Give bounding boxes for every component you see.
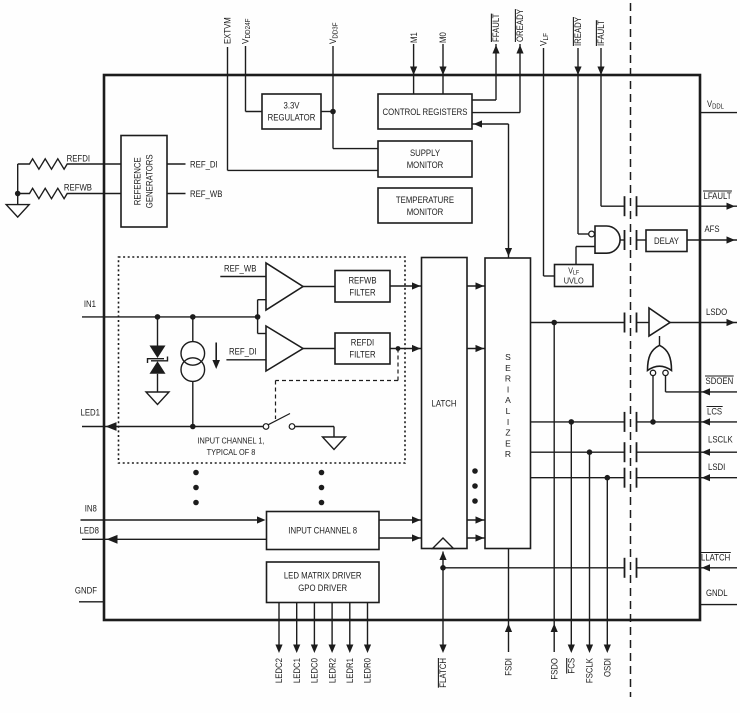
svg-text:LEDR0: LEDR0 <box>363 658 373 683</box>
ground symbol (TVS) <box>146 392 169 405</box>
pin LFAULT label <box>703 191 732 201</box>
svg-text:FSDO: FSDO <box>549 658 559 680</box>
svg-text:EXTVM: EXTVM <box>223 17 233 44</box>
pin OREADY (active-low output) <box>472 9 525 113</box>
svg-text:TYPICAL OF 8: TYPICAL OF 8 <box>207 447 256 457</box>
svg-text:REGULATOR: REGULATOR <box>268 113 316 123</box>
ellipsis dots channel repetition right <box>472 468 478 504</box>
node IN1 junctions <box>155 314 261 320</box>
svg-text:IREADY: IREADY <box>573 17 583 46</box>
isolation capacitor on LSCLK path <box>625 442 637 462</box>
current source (wetting current) <box>181 317 205 427</box>
resistor on REFWB input <box>18 183 121 199</box>
wire switch to ground <box>333 427 335 438</box>
svg-text:M1: M1 <box>409 32 419 43</box>
svg-text:LCS: LCS <box>707 407 722 417</box>
net REF_DI output stub <box>167 160 218 170</box>
pin VDDL <box>700 99 737 113</box>
svg-text:3.3V: 3.3V <box>284 101 300 111</box>
pin AFS <box>687 224 737 244</box>
pin LED8 <box>80 526 267 544</box>
ellipsis dots channel repetition middle <box>319 470 325 506</box>
net REF_WB output stub <box>167 189 222 199</box>
current direction arrow <box>212 343 220 370</box>
svg-text:FSDI: FSDI <box>504 658 514 676</box>
svg-text:LEDC0: LEDC0 <box>310 658 320 683</box>
wire LATCH to SERIALIZER y348 <box>467 345 485 352</box>
pin LSCLK wire to SERIALIZER <box>531 435 738 456</box>
svg-text:MONITOR: MONITOR <box>407 207 444 217</box>
svg-text:R: R <box>505 374 511 384</box>
svg-text:E: E <box>505 363 511 373</box>
wire UVLO to gate U2 <box>576 247 595 265</box>
pin IREADY (active-low input) <box>573 17 588 234</box>
svg-text:LED8: LED8 <box>80 526 100 536</box>
wire SERIALIZER to LSDO <box>531 320 650 326</box>
IC outline <box>104 75 700 620</box>
svg-text:LSCLK: LSCLK <box>708 435 733 445</box>
pin IN8 <box>81 504 266 524</box>
wire LATCH to SERIALIZER y520 <box>467 516 485 523</box>
ground symbol (LED1 switch) <box>323 437 346 450</box>
pin FSCLK wire from LSCLK node <box>585 452 595 683</box>
svg-text:LLATCH: LLATCH <box>701 553 730 563</box>
svg-text:REF_WB: REF_WB <box>190 189 222 199</box>
svg-text:LEDC1: LEDC1 <box>292 658 302 683</box>
isolation capacitor on LCS path <box>625 412 637 432</box>
svg-text:LSDI: LSDI <box>708 462 725 472</box>
switch SW1 on LED1 line <box>263 414 334 430</box>
pin IFAULT (active-low input) <box>596 20 606 206</box>
isolation capacitor on LSDO path <box>625 313 637 333</box>
block INPUT CHANNEL 1 dashed outline <box>119 257 406 463</box>
svg-text:SUPPLY: SUPPLY <box>410 148 440 158</box>
block INPUT CHANNEL 8 <box>267 512 380 550</box>
pin VDD24F <box>241 19 262 112</box>
wire LATCH to SERIALIZER y286 <box>467 282 485 289</box>
pin LSDO <box>670 307 737 326</box>
ellipsis dots channel repetition left <box>193 470 199 506</box>
svg-text:OREADY: OREADY <box>515 9 525 42</box>
svg-text:LED1: LED1 <box>81 408 101 418</box>
svg-text:REFDI: REFDI <box>351 338 374 348</box>
isolation capacitor on AFS path <box>625 230 637 250</box>
svg-text:INPUT CHANNEL 8: INPUT CHANNEL 8 <box>288 526 357 536</box>
pin IN1 <box>82 299 258 317</box>
svg-text:GNDF: GNDF <box>75 586 98 596</box>
block 3.3V regulator <box>262 94 321 129</box>
pin GNDL <box>700 588 737 605</box>
pin LED1 <box>81 408 264 431</box>
net REF_WB comparator input <box>220 264 266 277</box>
gate U2 (AND with inverted input) <box>589 226 620 253</box>
svg-text:FILTER: FILTER <box>349 350 376 360</box>
dashed switch-control path <box>276 349 399 420</box>
TVS bidirectional zener diode on IN1 <box>148 317 168 392</box>
svg-text:LED MATRIX DRIVER: LED MATRIX DRIVER <box>284 571 362 581</box>
block SERIALIZER <box>485 258 531 549</box>
svg-text:LEDC2: LEDC2 <box>274 658 284 683</box>
svg-text:L: L <box>506 406 511 416</box>
pin FSDI <box>504 549 514 676</box>
isolation barrier (dashed) <box>630 3 632 697</box>
block VLF UVLO <box>555 265 594 287</box>
svg-text:LSDO: LSDO <box>706 307 727 317</box>
block REFERENCE GENERATORS <box>121 136 167 228</box>
pin M0 <box>438 32 448 94</box>
block DELAY <box>646 230 687 252</box>
svg-text:Z: Z <box>505 428 510 438</box>
svg-text:REF_WB: REF_WB <box>224 264 256 274</box>
pin EXTVM <box>223 17 378 170</box>
svg-text:I: I <box>507 417 509 427</box>
svg-text:IFAULT: IFAULT <box>596 20 606 46</box>
svg-text:FSCLK: FSCLK <box>585 658 595 683</box>
pin FCS wire from LCS node <box>567 422 577 674</box>
isolation capacitor on LLATCH path <box>625 558 637 578</box>
block REFWB FILTER <box>335 271 390 303</box>
svg-text:FLATCH: FLATCH <box>438 658 448 688</box>
svg-text:CONTROL REGISTERS: CONTROL REGISTERS <box>383 107 468 117</box>
svg-text:REF_DI: REF_DI <box>229 347 257 357</box>
svg-text:LATCH: LATCH <box>432 399 457 409</box>
svg-text:LEDR2: LEDR2 <box>327 658 337 683</box>
comparator input bracket wire <box>258 300 266 334</box>
svg-text:TEMPERATURE: TEMPERATURE <box>396 195 454 205</box>
svg-text:GNDL: GNDL <box>706 588 728 598</box>
isolation capacitor on LSDI path <box>625 468 637 488</box>
svg-text:S: S <box>505 352 511 362</box>
svg-text:FFAULT: FFAULT <box>491 13 501 42</box>
gate U4 (output enable) <box>648 336 672 376</box>
wire CONTROL REGISTERS to SERIALIZER (bidirectional) <box>472 120 512 258</box>
pin FFAULT (active-low output) <box>472 13 501 100</box>
pin OSDI wire from LSDI node <box>603 478 613 677</box>
svg-text:GENERATORS: GENERATORS <box>145 154 155 208</box>
pin LEDR0 <box>363 603 373 684</box>
pin VDD3F <box>328 23 378 149</box>
svg-text:FCS: FCS <box>567 658 577 674</box>
comparator A2 (field-side DI) <box>266 326 335 371</box>
pin LEDC2 <box>274 603 284 684</box>
isolation capacitor on LFAULT path <box>625 196 637 216</box>
node LED1 current-source junction <box>190 424 196 430</box>
pin GNDF <box>75 586 104 602</box>
buffer U3 (LSDO output driver) <box>649 308 670 336</box>
pin LLATCH wire <box>443 553 737 572</box>
wire IFAULT to LFAULT output <box>601 203 737 210</box>
pin LSDI wire to SERIALIZER <box>531 462 738 481</box>
pin FSDO wire from LSDO node <box>549 323 559 680</box>
svg-text:UVLO: UVLO <box>564 276 584 286</box>
svg-text:E: E <box>505 438 511 448</box>
pin LCS wire to SERIALIZER <box>531 407 738 426</box>
net REF_DI comparator input <box>226 347 266 360</box>
wire external reference common <box>15 164 21 205</box>
block CONTROL REGISTERS <box>378 94 472 129</box>
pin FLATCH <box>438 552 448 688</box>
svg-text:INPUT CHANNEL 1,: INPUT CHANNEL 1, <box>198 436 265 446</box>
ground symbol (external reference) <box>6 205 29 218</box>
svg-text:DELAY: DELAY <box>654 236 679 246</box>
svg-text:R: R <box>505 449 511 459</box>
svg-text:A: A <box>505 395 511 405</box>
pin LEDR2 <box>327 603 337 684</box>
wire INPUT CHANNEL 8 to LATCH (upper) <box>379 516 422 523</box>
svg-text:MONITOR: MONITOR <box>407 160 444 170</box>
wire REFDI FILTER to LATCH <box>390 345 422 352</box>
svg-text:GPO DRIVER: GPO DRIVER <box>298 583 347 593</box>
svg-text:IN8: IN8 <box>85 504 97 514</box>
svg-text:OSDI: OSDI <box>603 658 613 677</box>
node VDD3F regulator output junction <box>321 109 336 115</box>
wire INPUT CHANNEL 8 to LATCH (lower) <box>379 534 422 541</box>
svg-text:REFWB: REFWB <box>348 276 376 286</box>
block SUPPLY MONITOR <box>378 141 472 177</box>
pin LEDC0 <box>310 603 320 684</box>
block LED MATRIX DRIVER / GPO DRIVER <box>267 562 380 603</box>
svg-text:REF_DI: REF_DI <box>190 160 218 170</box>
pin SDOEN <box>666 376 738 396</box>
svg-text:REFDI: REFDI <box>67 154 90 164</box>
svg-text:FILTER: FILTER <box>349 288 376 298</box>
wire LATCH to SERIALIZER y538 <box>467 534 485 541</box>
svg-text:LFAULT: LFAULT <box>704 191 732 201</box>
svg-text:I: I <box>507 384 509 394</box>
pin M1 <box>409 32 419 94</box>
wire gate U4 input to LCS <box>650 376 656 425</box>
svg-text:REFWB: REFWB <box>64 183 92 193</box>
svg-text:SDOEN: SDOEN <box>706 376 734 386</box>
svg-text:M0: M0 <box>438 32 448 43</box>
pin LEDC1 <box>292 603 302 684</box>
svg-text:IN1: IN1 <box>84 299 96 309</box>
pin VLF <box>539 33 555 276</box>
wire REFWB FILTER to LATCH <box>390 282 422 289</box>
wire gate U2 output to DELAY <box>620 239 646 241</box>
block TEMPERATURE MONITOR <box>378 188 472 223</box>
pin LEDR1 <box>345 603 355 684</box>
block REFDI FILTER <box>335 333 390 364</box>
block LATCH <box>422 258 468 549</box>
resistor on REFDI input <box>18 154 121 170</box>
comparator A1 (field-side WB) <box>266 263 335 310</box>
svg-text:AFS: AFS <box>705 224 720 234</box>
svg-text:REFERENCE: REFERENCE <box>133 157 143 205</box>
svg-text:LEDR1: LEDR1 <box>345 658 355 683</box>
